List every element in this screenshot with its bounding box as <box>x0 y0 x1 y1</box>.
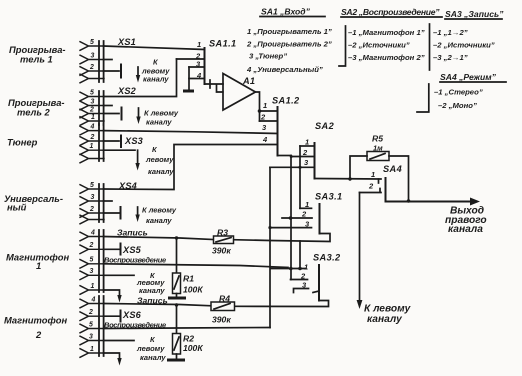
switch bar SA1.2 <box>277 107 279 156</box>
wiper wire to op-amp <box>205 83 224 85</box>
label output right channel <box>445 206 487 236</box>
to left channel arrow XS3 <box>135 145 174 176</box>
switch bar SA3.2 <box>318 265 320 301</box>
wiper wire SA3.2 common to R4 <box>235 301 329 307</box>
svg-text:SA1.1: SA1.1 <box>209 39 237 49</box>
wire XS2 pin5 riser to SA1.1 contact 2 <box>104 59 177 97</box>
svg-text:1: 1 <box>90 143 94 150</box>
wire XS6 pin2 with terminal bar <box>104 315 119 317</box>
to left channel arrow XS2 <box>136 108 179 127</box>
contact 1 stub <box>300 145 313 147</box>
contact 2 stub <box>360 189 382 193</box>
wire XS5 pin4 record to R3 <box>104 237 214 240</box>
contact 3 stub <box>189 66 204 68</box>
svg-text:SA3 „Запись”: SA3 „Запись” <box>445 9 504 19</box>
legend SA2 <box>339 7 442 66</box>
switch SA3.1 <box>234 192 343 242</box>
svg-text:–3 „Магнитофон 2”: –3 „Магнитофон 2” <box>348 53 425 62</box>
wiper wire SA3.1 common to R3 <box>234 234 331 242</box>
wire XS6 pin1 to left channel arrow <box>104 353 120 360</box>
svg-text:3: 3 <box>91 194 95 201</box>
wire record tap to SA3.2 contact 1 <box>299 241 301 269</box>
svg-text:100К: 100К <box>183 285 203 295</box>
svg-text:XS2: XS2 <box>117 86 137 96</box>
svg-text:4: 4 <box>90 123 95 130</box>
to left channel text XS6 <box>136 335 166 362</box>
svg-text:3: 3 <box>89 333 93 340</box>
wire XS4 pin2 with terminal bar <box>104 212 119 214</box>
svg-text:SA3.1: SA3.1 <box>315 192 343 202</box>
label to left channel <box>364 304 412 326</box>
connector XS1 <box>80 37 136 83</box>
svg-text:1: 1 <box>91 114 95 121</box>
svg-text:1: 1 <box>263 101 267 110</box>
contact 1 stub <box>300 207 312 209</box>
contact 2 stub <box>177 58 205 60</box>
R5 right lead <box>389 156 409 201</box>
resistor R1 <box>173 236 204 296</box>
svg-text:–2 „Источники”: –2 „Источники” <box>348 41 410 50</box>
switch bar SA4 <box>385 178 387 202</box>
label tape recorder 1 <box>6 252 69 272</box>
svg-text:2 „Проигрыватель 2”: 2 „Проигрыватель 2” <box>246 40 332 49</box>
contact 4 stub <box>189 78 204 80</box>
wire A1 output to SA1.2 contacts 1,2 <box>256 92 260 121</box>
svg-text:каналу: каналу <box>148 167 174 176</box>
svg-text:5: 5 <box>90 182 94 189</box>
contact 3 stub and feed wire <box>270 166 313 168</box>
wire XS5 pin2 with terminal bar <box>104 248 119 250</box>
svg-text:1: 1 <box>371 170 375 179</box>
svg-text:2: 2 <box>90 134 95 141</box>
svg-text:SA4: SA4 <box>383 164 402 174</box>
contact 3 stub <box>270 227 312 229</box>
switch SA3.2 <box>235 253 342 307</box>
connector XS5 <box>80 229 142 294</box>
ground under R1 <box>168 297 186 300</box>
svg-text:3 „Тюнер”: 3 „Тюнер” <box>249 52 287 61</box>
wire XS2 pin3 <box>104 105 112 107</box>
wire XS1 pin3 <box>104 59 112 61</box>
wire sources bus from SA1.2 common down <box>290 156 292 280</box>
svg-text:SA2: SA2 <box>315 121 335 131</box>
svg-text:5: 5 <box>90 257 94 264</box>
svg-text:R2: R2 <box>183 334 194 344</box>
svg-text:XS5: XS5 <box>122 245 142 255</box>
svg-text:–3 „2→1”: –3 „2→1” <box>433 53 468 62</box>
wire XS1 pin5 to SA1.1 contact 1 <box>104 46 204 50</box>
svg-text:R5: R5 <box>372 134 383 144</box>
legend SA3 <box>430 9 505 70</box>
ground <box>183 90 194 93</box>
wire XS5 pin3 <box>104 274 134 276</box>
wiper wire SA2 common to SA4 <box>315 178 382 181</box>
resistor R4 <box>211 294 235 325</box>
svg-text:–2 „Моно”: –2 „Моно” <box>438 101 477 110</box>
svg-text:левому: левому <box>136 344 165 353</box>
svg-text:–1 „Магнитофон 1”: –1 „Магнитофон 1” <box>348 28 425 37</box>
contact 2 stub <box>282 217 312 219</box>
svg-text:каналу: каналу <box>140 353 166 362</box>
svg-text:–1 „1→2”: –1 „1→2” <box>433 28 468 37</box>
svg-text:4: 4 <box>262 135 268 144</box>
switch SA4 <box>360 164 403 202</box>
wire XS4 pin3 <box>104 200 112 202</box>
svg-text:1: 1 <box>304 263 308 272</box>
switch bar SA3.1 <box>319 204 321 234</box>
svg-text:5: 5 <box>90 39 94 46</box>
svg-text:2: 2 <box>35 329 42 340</box>
connector XS3 <box>80 123 143 162</box>
svg-text:4: 4 <box>91 296 96 303</box>
svg-text:2: 2 <box>89 206 94 213</box>
svg-text:2: 2 <box>88 309 93 316</box>
svg-text:4: 4 <box>90 229 95 236</box>
svg-text:XS6: XS6 <box>122 310 142 320</box>
switch bar SA1.1 <box>204 48 206 84</box>
grounded contacts 3-4 branch <box>188 67 190 90</box>
svg-text:каналу: каналу <box>367 314 403 325</box>
label source 1 <box>9 44 66 65</box>
svg-text:SA1.2: SA1.2 <box>272 96 300 106</box>
resistor R5 <box>348 134 410 203</box>
label tape recorder 2 <box>4 315 67 341</box>
wire XS5 pin1 to left channel arrow <box>104 290 120 297</box>
svg-text:каналу: каналу <box>143 75 169 84</box>
svg-text:SA4 „Режим”: SA4 „Режим” <box>440 72 497 82</box>
svg-text:R1: R1 <box>183 274 194 284</box>
switch bar SA2 <box>314 143 316 179</box>
svg-text:каналу: каналу <box>146 118 172 127</box>
svg-text:1: 1 <box>197 40 201 49</box>
svg-text:1: 1 <box>91 283 95 290</box>
wire output right channel with arrow <box>386 201 473 203</box>
wire XS2 pin2 with terminal bar <box>104 113 119 115</box>
node junction sources bus contact 2 <box>289 216 293 220</box>
wire XS6 pin5 playback riser to node A <box>104 328 270 329</box>
label universal input <box>4 193 63 213</box>
wire XS3 pin2 with terminal bar <box>104 140 119 142</box>
connector XS2 <box>80 86 137 125</box>
svg-text:3: 3 <box>90 268 94 275</box>
svg-text:390к: 390к <box>212 315 231 325</box>
contact 3 stub <box>294 289 309 293</box>
wire mono link to left channel with arrow <box>359 193 361 303</box>
wire XS5 pin5 playback to SA3.2 contact 1 <box>104 264 288 268</box>
wire playback bus node A riser <box>269 167 271 327</box>
connector XS4 <box>80 181 137 224</box>
svg-text:каналу: каналу <box>139 286 165 295</box>
wire tuner XS3 pin4 to SA1.2 contact 3 <box>104 131 278 134</box>
contact 2 stub <box>260 120 278 122</box>
connector XS6 <box>80 296 142 357</box>
svg-text:2: 2 <box>368 182 374 191</box>
legend SA4 <box>417 72 506 112</box>
svg-text:каналу: каналу <box>146 216 172 225</box>
resistor R2 <box>173 303 204 358</box>
svg-text:4 „Универсальный”: 4 „Универсальный” <box>246 65 323 74</box>
svg-text:2: 2 <box>89 106 94 113</box>
contact 1 stub <box>260 110 278 112</box>
label source 2 <box>8 97 65 118</box>
switch SA1.2 <box>260 96 301 156</box>
to left channel text XS5 <box>136 271 165 295</box>
wire XS1 pin2 with terminal bar <box>104 70 119 72</box>
wiper tick <box>313 291 319 293</box>
svg-text:–1 „Стерео”: –1 „Стерео” <box>434 88 483 97</box>
to left channel arrow XS4 <box>135 206 177 226</box>
svg-text:Магнитофон: Магнитофон <box>4 315 67 326</box>
svg-text:–2 „Источники”: –2 „Источники” <box>433 41 495 50</box>
svg-text:Запись: Запись <box>117 228 148 238</box>
wire XS6 pin3 <box>104 340 134 342</box>
svg-text:2: 2 <box>89 64 94 71</box>
svg-text:Тюнер: Тюнер <box>7 137 38 148</box>
svg-text:А1: А1 <box>242 76 255 86</box>
svg-text:тель 2: тель 2 <box>17 107 51 118</box>
svg-text:SA3.2: SA3.2 <box>313 253 341 263</box>
switch SA1.1 <box>177 39 237 93</box>
label tuner <box>7 137 38 148</box>
svg-text:1 „Проигрыватель 1”: 1 „Проигрыватель 1” <box>247 27 332 36</box>
contact 2 stub <box>291 279 308 281</box>
contact 2 stub <box>291 156 313 158</box>
svg-text:3: 3 <box>91 52 95 59</box>
svg-text:левому: левому <box>145 155 174 164</box>
svg-text:5: 5 <box>90 89 94 96</box>
svg-text:SA2 „Воспроизведение”: SA2 „Воспроизведение” <box>341 7 440 17</box>
wire XS3 pin1 <box>104 149 135 151</box>
ground under R2 <box>167 359 185 362</box>
switch SA2 <box>270 121 381 208</box>
bracket wire contact1 to SA3.1 contact1 <box>299 146 301 208</box>
svg-text:1: 1 <box>36 260 41 271</box>
op-amp A1 <box>223 74 256 111</box>
svg-text:канала: канала <box>448 224 483 235</box>
wire XS4 pin5 riser to SA1.2 contact 4 <box>104 145 278 190</box>
contact 1 stub <box>271 268 307 270</box>
svg-text:К левому: К левому <box>364 304 412 315</box>
svg-text:100К: 100К <box>183 343 203 353</box>
svg-text:XS1: XS1 <box>117 37 136 47</box>
legend SA1 <box>246 7 332 75</box>
node A1 out junction <box>258 109 262 113</box>
svg-text:1: 1 <box>90 346 94 353</box>
R5 left lead <box>350 156 367 179</box>
svg-text:3: 3 <box>91 98 95 105</box>
resistor R3 <box>212 228 234 256</box>
svg-text:XS3: XS3 <box>124 136 143 146</box>
svg-text:К левому: К левому <box>142 206 177 215</box>
wiper wire SA1.2 common <box>278 155 292 157</box>
to left channel arrow XS1 <box>136 58 170 84</box>
svg-text:2: 2 <box>89 242 94 249</box>
svg-text:К левому: К левому <box>144 109 179 118</box>
svg-text:тель 1: тель 1 <box>20 54 53 65</box>
contact 1 tick <box>378 179 380 183</box>
svg-text:SA1 „Вход”: SA1 „Вход” <box>261 7 311 17</box>
svg-text:390к: 390к <box>212 246 231 256</box>
svg-text:ный: ный <box>7 202 27 213</box>
svg-text:5: 5 <box>89 321 93 328</box>
wire XS6 pin4 record to R4 <box>104 304 211 306</box>
